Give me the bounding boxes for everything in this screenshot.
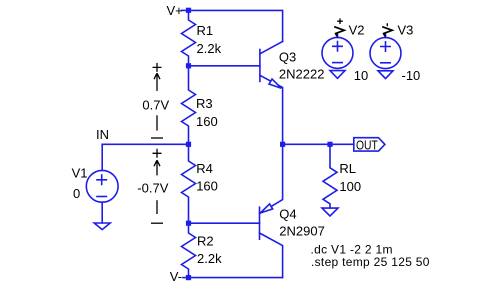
ground RL <box>322 208 338 216</box>
node RL top <box>327 142 332 147</box>
svg-text:V-: V- <box>170 269 182 284</box>
wire V+ flag stub <box>182 9 189 11</box>
resistor R3 <box>182 66 196 145</box>
resistor R1 <box>182 10 196 65</box>
V+ net flag chevron above V2 <box>334 27 344 37</box>
wire V1 top <box>101 144 103 170</box>
wire V- rail <box>183 277 283 279</box>
ground V3 <box>378 71 393 79</box>
annotation 0.7V minus dash <box>151 137 163 139</box>
svg-text:V3: V3 <box>398 23 414 38</box>
node output emitters <box>280 142 285 147</box>
svg-text:2N2222: 2N2222 <box>279 67 325 82</box>
resistor R2 <box>182 223 196 277</box>
svg-text:0.7V: 0.7V <box>142 98 169 113</box>
svg-text:V+: V+ <box>167 3 183 18</box>
V3 flag stub <box>385 34 387 37</box>
annotation -0.7V minus lead <box>156 200 158 214</box>
voltage source V2 circle <box>322 37 353 68</box>
transistor Q3 emitter <box>260 75 283 144</box>
svg-text:IN: IN <box>96 127 109 142</box>
voltage source V1 circle <box>86 170 118 202</box>
annotation 0.7V minus lead <box>156 115 158 130</box>
resistor R4 <box>182 144 196 223</box>
wire Q3 base <box>189 65 260 67</box>
ground V2 <box>330 71 345 79</box>
svg-text:V1: V1 <box>72 166 88 181</box>
svg-text:10: 10 <box>354 68 368 83</box>
annotation -0.7V arrow <box>154 160 160 175</box>
svg-text:RL: RL <box>339 161 356 176</box>
node R1/R3/Q3 base <box>186 63 191 68</box>
plus above V2 flag <box>337 18 343 24</box>
node mid rail <box>186 142 191 147</box>
annotation 0.7V plus <box>153 63 162 72</box>
ground V1 <box>94 223 110 230</box>
svg-text:R4: R4 <box>196 161 213 176</box>
svg-text:Q3: Q3 <box>279 50 296 65</box>
svg-text:Q4: Q4 <box>279 207 296 222</box>
svg-text:2.2k: 2.2k <box>197 41 222 56</box>
V3 plus <box>381 42 390 51</box>
wire output to OUT flag <box>283 143 354 145</box>
transistor Q3 collector <box>260 41 283 53</box>
svg-text:V2: V2 <box>349 23 365 38</box>
V- net flag chevron above V3 <box>382 27 392 37</box>
svg-text:R1: R1 <box>197 23 214 38</box>
wire Q4 base <box>189 222 260 224</box>
svg-text:-10: -10 <box>402 68 421 83</box>
svg-text:0: 0 <box>73 186 80 201</box>
svg-text:R3: R3 <box>196 96 213 111</box>
OUT port flag <box>354 138 385 151</box>
voltage source V3 circle <box>370 38 401 69</box>
svg-text:100: 100 <box>339 179 361 194</box>
svg-text:OUT: OUT <box>356 137 378 152</box>
V2 plus <box>333 42 342 51</box>
node R4/R2/Q4 base <box>186 221 191 226</box>
transistor Q4 bar <box>259 207 261 239</box>
svg-text:R2: R2 <box>197 233 214 248</box>
V1 plus <box>97 175 106 184</box>
V2 minus <box>333 62 342 64</box>
svg-text:.step temp 25 125 50: .step temp 25 125 50 <box>311 255 430 269</box>
svg-text:160: 160 <box>196 114 218 129</box>
resistor RL <box>323 144 337 208</box>
svg-text:2.2k: 2.2k <box>197 251 222 266</box>
node squares <box>186 8 333 281</box>
black annotation marks <box>151 18 392 223</box>
transistor Q4 emitter <box>260 144 283 213</box>
annotation -0.7V minus dash <box>151 222 163 224</box>
transistor Q4 emitter arrow <box>260 204 272 213</box>
node V- <box>186 275 191 280</box>
transistor Q3 bar <box>259 50 261 82</box>
annotation 0.7V arrow <box>154 73 160 91</box>
wire V+ rail to Q3 collector <box>189 10 283 41</box>
svg-text:-0.7V: -0.7V <box>137 181 168 196</box>
wire V1 bottom <box>101 202 103 223</box>
transistor Q3 emitter arrow <box>269 79 281 88</box>
minus above V3 flag <box>386 23 388 26</box>
node V+ <box>186 8 191 13</box>
V2 flag stub <box>337 34 339 37</box>
V3 minus <box>381 62 390 64</box>
transistor Q4 collector <box>260 233 283 278</box>
wire IN to middle node <box>102 143 188 145</box>
V1 minus <box>97 196 106 198</box>
svg-text:2N2907: 2N2907 <box>279 224 325 239</box>
svg-text:160: 160 <box>196 179 218 194</box>
annotation -0.7V plus <box>153 149 162 158</box>
